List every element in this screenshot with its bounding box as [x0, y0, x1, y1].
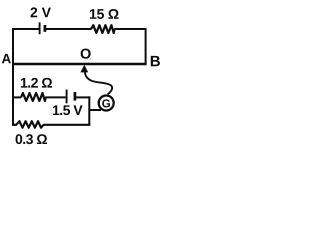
wire: lower branch left segment: [12, 96, 21, 98]
label 1.5 V: [53, 105, 83, 115]
wire: lower branch right segment: [76, 96, 90, 98]
resistor 0.3 ohm: [16, 121, 43, 128]
wire: top wire left segment: [12, 28, 39, 30]
wire: right vertical of top loop: [145, 28, 147, 64]
label 0.3 ohm: [16, 134, 47, 144]
battery cell 2V: long plate: [39, 22, 41, 34]
battery cell 1.5V: short plate: [74, 92, 77, 101]
battery cell 2V: short plate: [44, 25, 47, 32]
wire: lower branch middle segment: [45, 96, 65, 98]
wire: thick A-B wire: [12, 63, 147, 66]
node label B: [151, 56, 160, 66]
node label O: [81, 48, 91, 58]
wire: bottom branch right segment: [43, 124, 90, 126]
curved lead from arrow to galvanometer: [85, 72, 112, 95]
wire: top wire right segment: [114, 28, 145, 30]
resistor 15 ohm: [91, 25, 115, 33]
node label A: [2, 54, 11, 63]
label 15 ohm: [90, 9, 119, 19]
galvanometer G circle: [99, 96, 114, 111]
battery cell 1.5V: long plate: [66, 90, 68, 104]
sliding contact arrow at O: [81, 66, 88, 73]
resistor 1.2 ohm: [21, 93, 46, 101]
wire: top wire middle segment: [46, 28, 92, 30]
galvanometer G letter: [102, 99, 110, 107]
wire: inner right vertical: [88, 96, 90, 124]
wire: bottom branch left stub: [12, 124, 17, 126]
label 1.2 ohm: [21, 78, 52, 88]
wire: left vertical (top loop + lower loop, x=13): [12, 28, 14, 125]
wire: galvanometer connect: [89, 109, 101, 111]
label 2 V: [30, 7, 50, 17]
